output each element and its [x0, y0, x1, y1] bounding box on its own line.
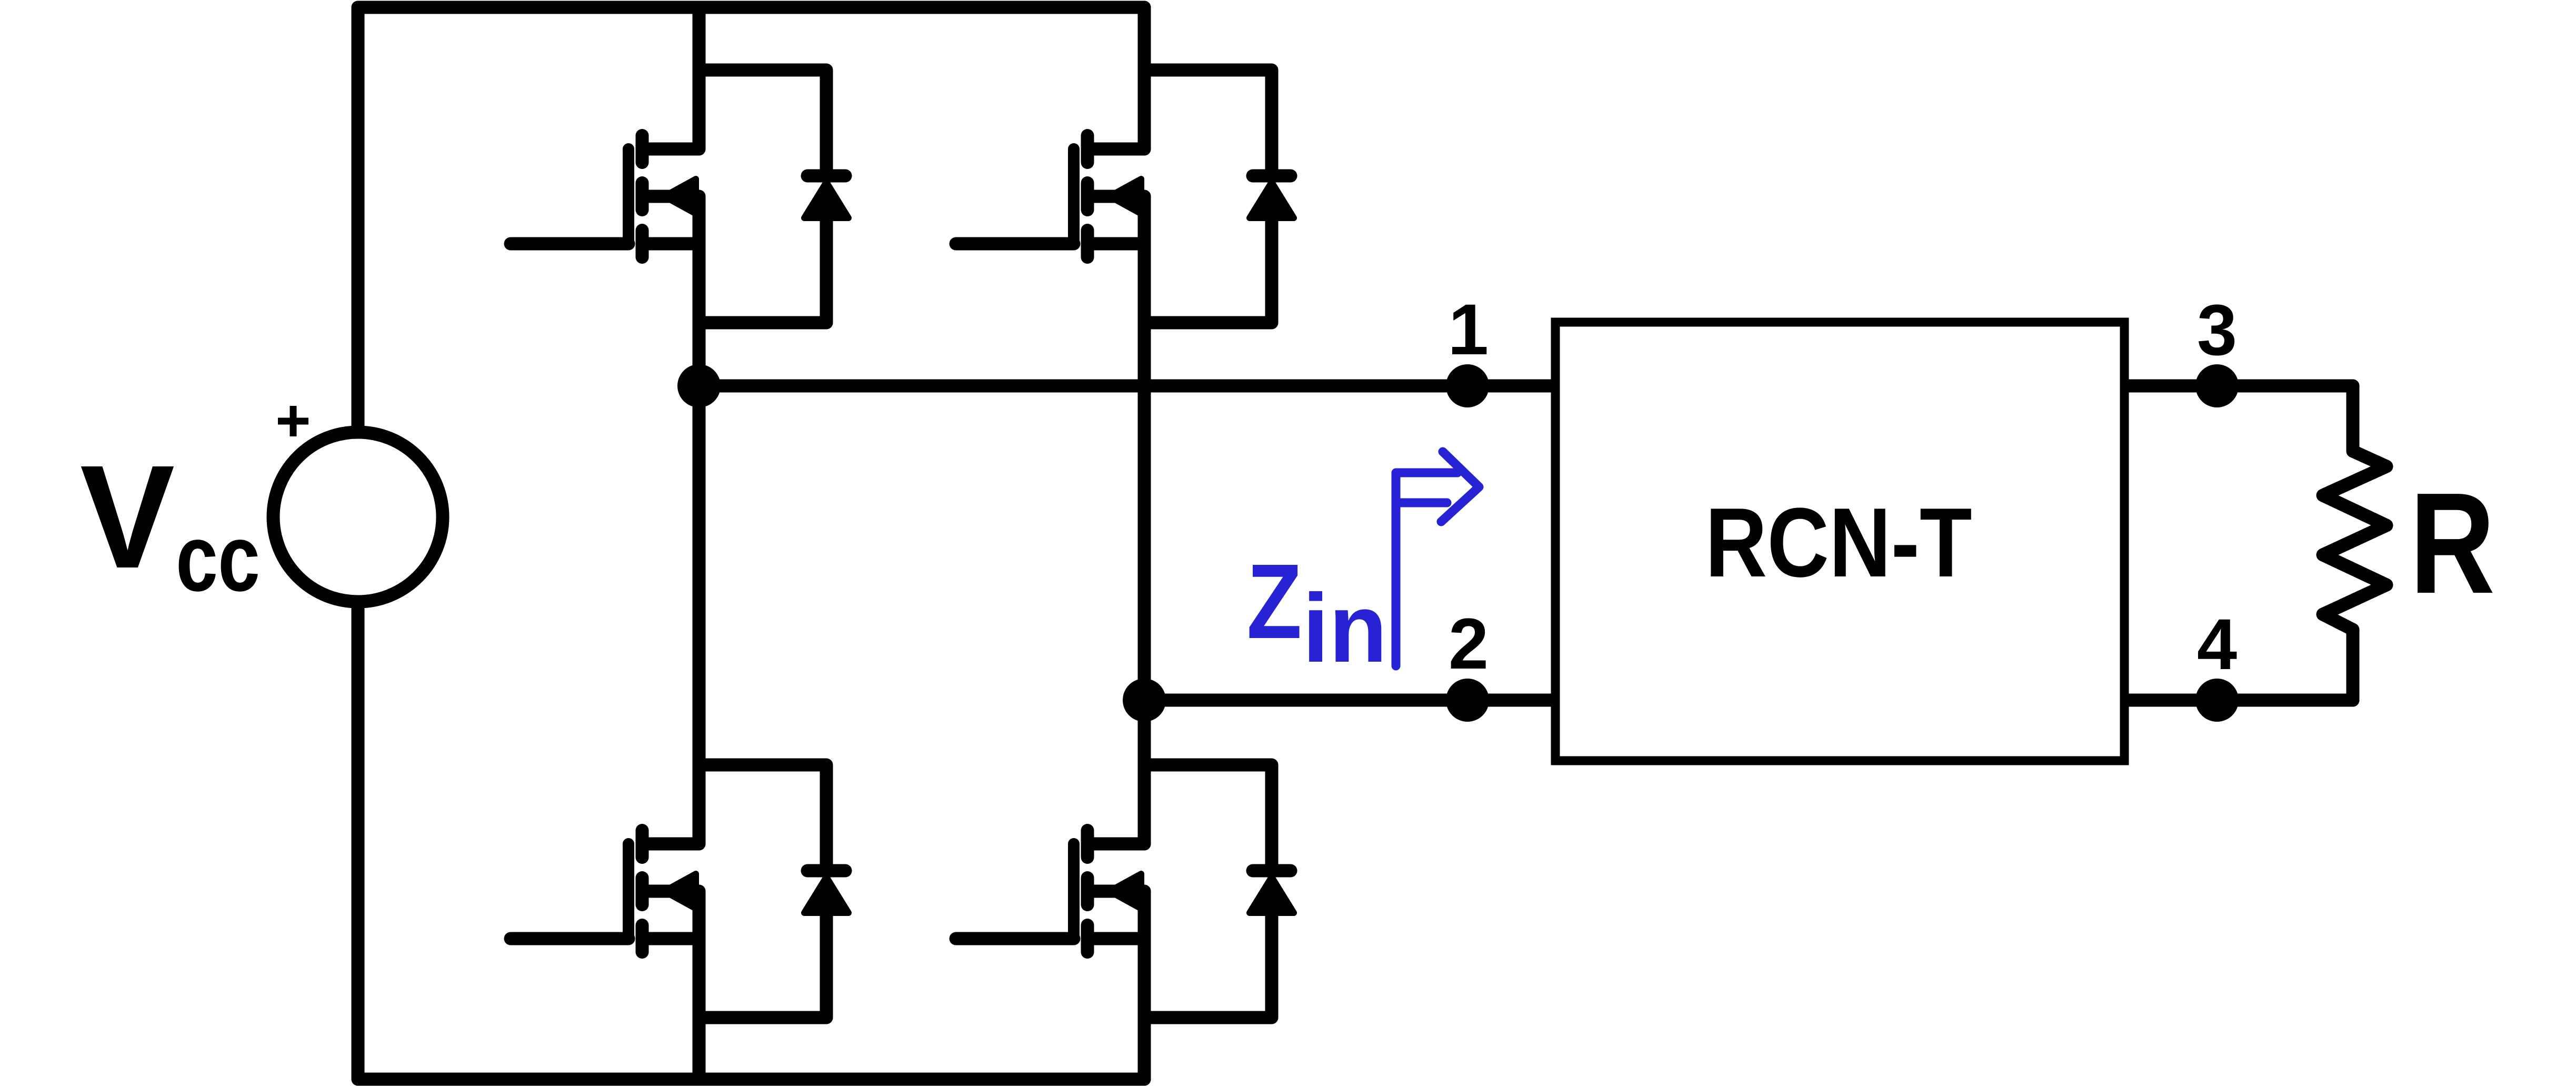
svg-text:4: 4 [2197, 604, 2237, 685]
transistor Q4 (right low-side) [1074, 831, 1144, 952]
terminal dot port 2 [1446, 679, 1489, 722]
transistor Q2 (right high-side) [1074, 136, 1144, 257]
svg-text:V: V [80, 435, 175, 599]
svg-text:in: in [1303, 574, 1387, 683]
wire Q3 gate lead [511, 932, 628, 945]
wire port 3 to resistor top [2129, 380, 2353, 393]
wire Q3 source to bottom rail [693, 891, 706, 1079]
svg-text:3: 3 [2197, 290, 2237, 371]
diode D1 (body diode) [699, 70, 848, 323]
svg-text:cc: cc [176, 505, 260, 611]
wire left leg top (rail to Q1 drain) [693, 7, 706, 149]
wire right leg top (rail to Q2 drain) [1138, 7, 1151, 149]
wire node 2 to port 2 of RCN-T [1144, 694, 1551, 707]
wire left leg (Q1 source through node 1 to Q3 drain) [693, 196, 706, 844]
wire top rail [358, 1, 1144, 14]
terminal dot port 1 [1446, 364, 1489, 407]
voltage source Vcc [273, 432, 443, 602]
diode D4 (body diode) [1144, 765, 1294, 1018]
terminal dot port 3 [2195, 364, 2239, 407]
block RCN-T network [1555, 322, 2124, 761]
terminal dot port 4 [2195, 679, 2239, 722]
wire Q2 gate lead [956, 237, 1074, 251]
wire Vcc negative lead [352, 605, 365, 1079]
node 1 junction dot [677, 364, 721, 407]
svg-text:RCN-T: RCN-T [1705, 487, 1972, 597]
diode D2 (body diode) [1144, 70, 1294, 323]
svg-text:2: 2 [1449, 604, 1489, 684]
wire Vcc positive lead [352, 7, 365, 429]
svg-text:R: R [2410, 463, 2495, 623]
wire right leg (Q2 source through node 2 to Q4 drain) [1138, 196, 1151, 844]
svg-text:Z: Z [1247, 542, 1302, 661]
plus sign [278, 406, 308, 436]
wire bottom rail [358, 1073, 1144, 1086]
wire port 4 to resistor bottom [2129, 694, 2353, 707]
wire Q4 gate lead [956, 932, 1074, 945]
svg-text:1: 1 [1449, 290, 1489, 370]
wire Q1 gate lead [511, 237, 628, 251]
diode D3 (body diode) [699, 765, 848, 1018]
impedance measurement arrow Zin [1396, 473, 1457, 666]
wire Q4 source to bottom rail [1138, 891, 1151, 1079]
transistor Q1 (left high-side) [628, 136, 699, 257]
wire node 1 to port 1 of RCN-T [699, 380, 1551, 393]
node 2 junction dot [1123, 679, 1166, 722]
resistor R [2323, 386, 2387, 700]
transistor Q3 (left low-side) [628, 831, 699, 952]
